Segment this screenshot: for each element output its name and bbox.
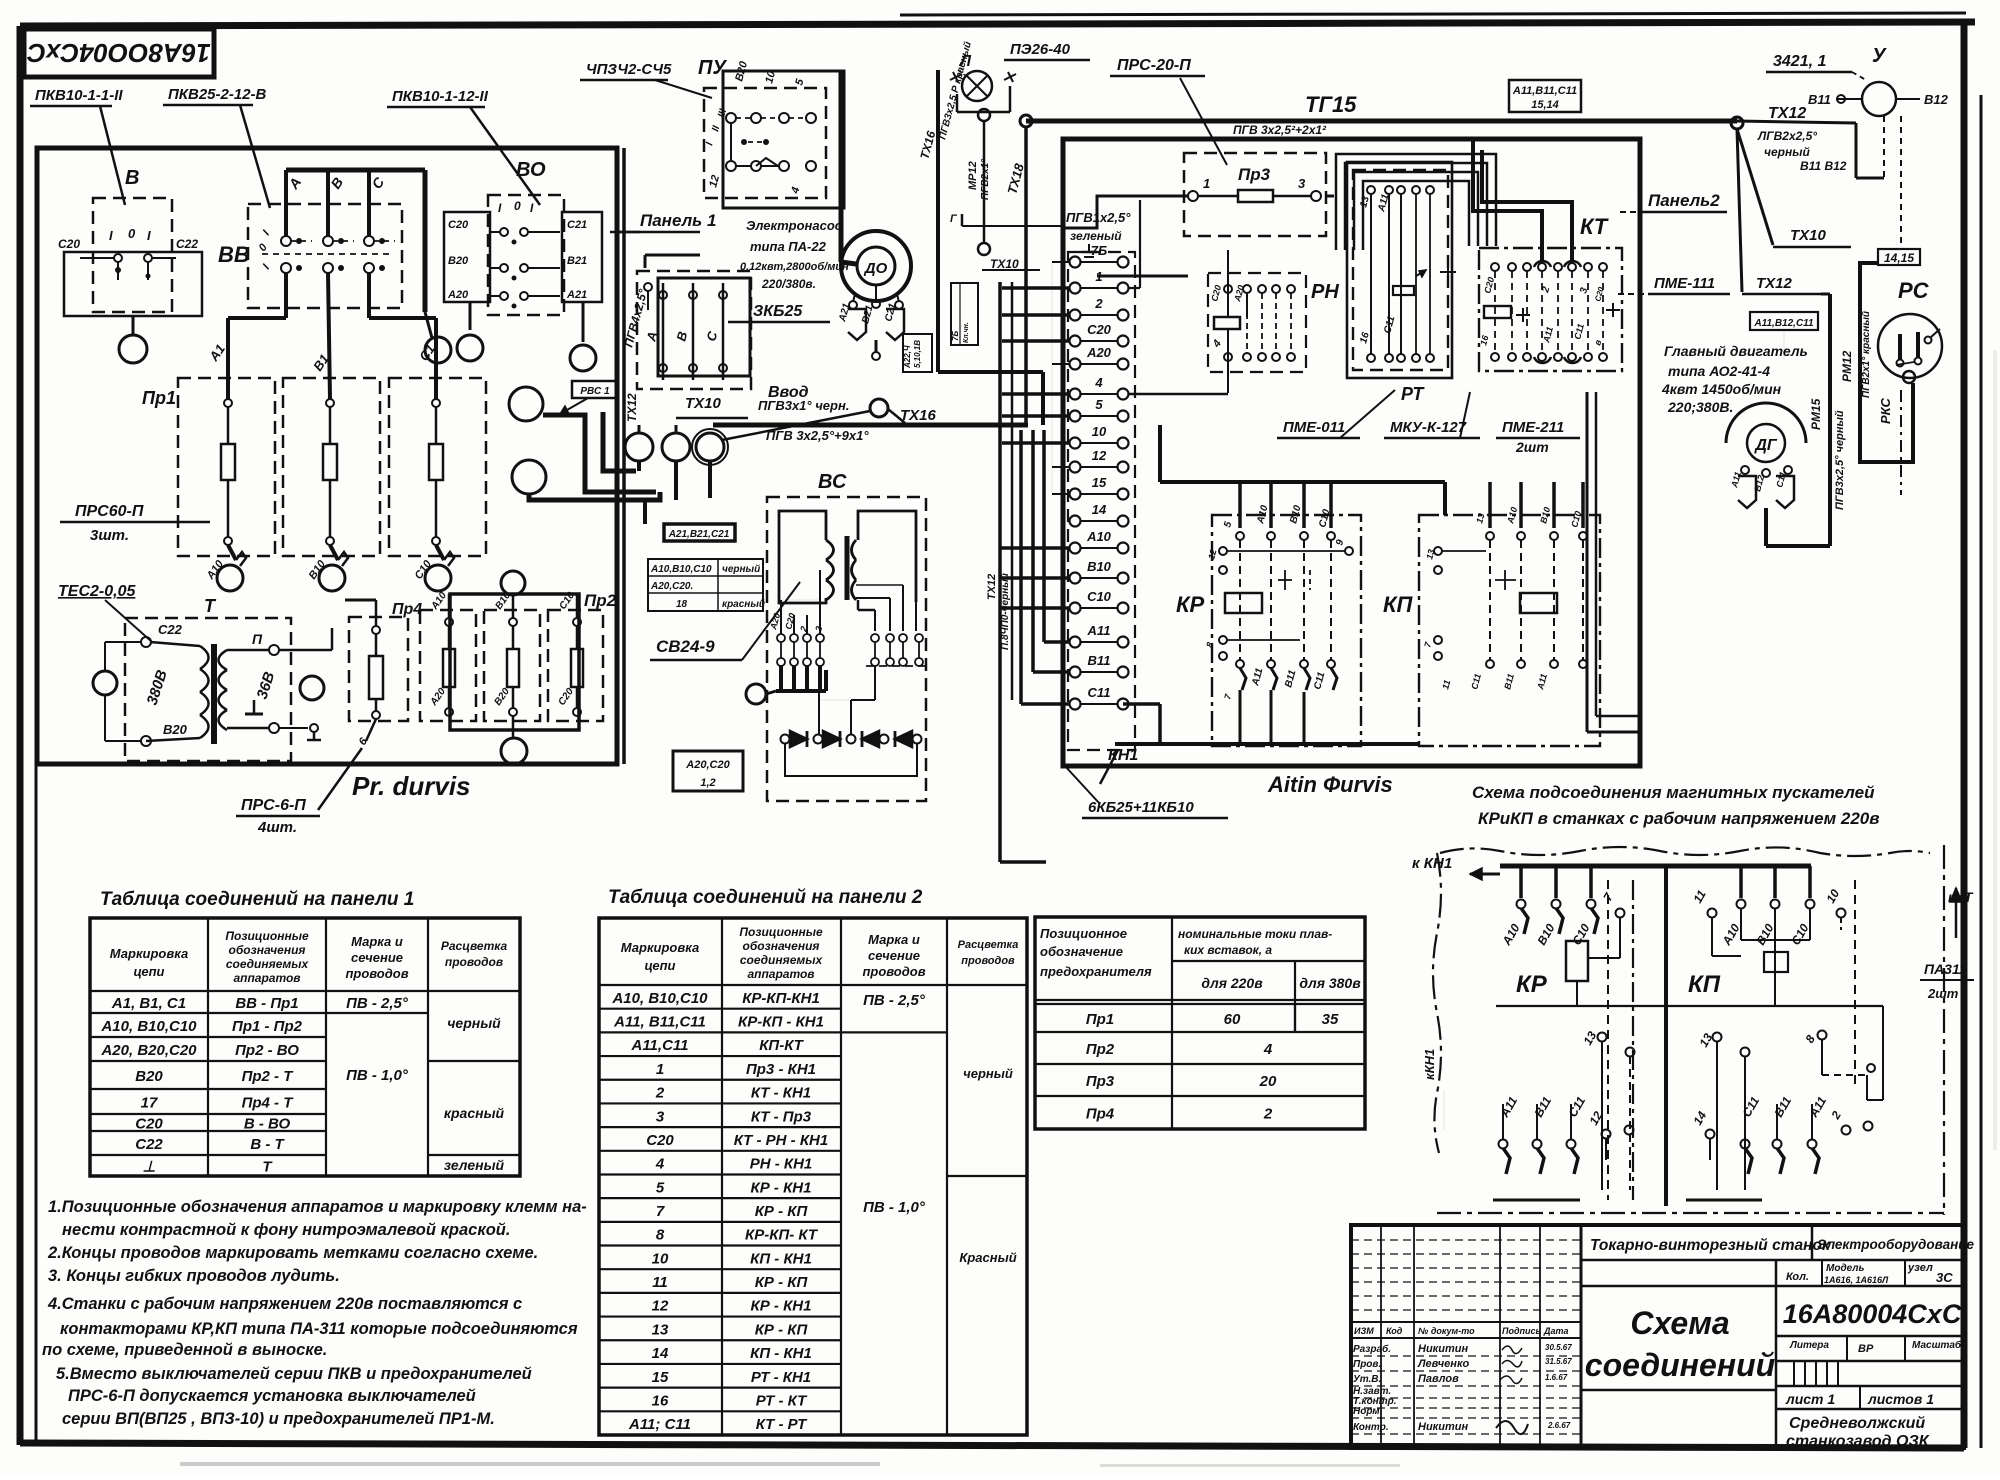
svg-text:16: 16	[652, 1392, 669, 1409]
svg-text:А21: А21	[566, 289, 587, 301]
svg-text:А11,С11: А11,С11	[631, 1037, 689, 1054]
svg-text:15: 15	[1092, 475, 1107, 490]
svg-text:Пр4 - Т: Пр4 - Т	[242, 1095, 295, 1112]
svg-text:РМ15: РМ15	[1809, 398, 1823, 430]
svg-text:ПГВ2х1°: ПГВ2х1°	[980, 158, 991, 200]
svg-text:Расцветка: Расцветка	[958, 939, 1019, 951]
svg-text:ПВ - 1,0°: ПВ - 1,0°	[863, 1199, 926, 1216]
svg-text:Ут.В.: Ут.В.	[1353, 1374, 1381, 1385]
svg-text:цепи: цепи	[644, 958, 675, 973]
svg-text:Пр3 - КН1: Пр3 - КН1	[746, 1061, 816, 1078]
svg-text:Пр4: Пр4	[1086, 1106, 1115, 1123]
svg-text:Электрооборудование: Электрооборудование	[1817, 1237, 1975, 1252]
svg-text:КР: КР	[1516, 971, 1548, 998]
svg-text:ТХ10: ТХ10	[1790, 227, 1827, 244]
svg-text:6КБ25+11КБ10: 6КБ25+11КБ10	[1088, 799, 1194, 816]
svg-text:РТ: РТ	[1401, 384, 1425, 404]
svg-text:ПКВ25-2-12-В: ПКВ25-2-12-В	[168, 86, 267, 103]
svg-text:В11: В11	[1808, 92, 1831, 107]
svg-text:соединяемых: соединяемых	[740, 953, 824, 967]
svg-text:Схема подсоединения магнитных: Схема подсоединения магнитных пускателей	[1472, 783, 1875, 802]
svg-text:РН - КН1: РН - КН1	[750, 1156, 813, 1173]
svg-text:220;380В.: 220;380В.	[1667, 399, 1733, 415]
svg-text:4шт.: 4шт.	[257, 819, 297, 836]
svg-text:обозначения: обозначения	[229, 943, 306, 957]
svg-text:60: 60	[1224, 1011, 1241, 1028]
svg-text:А20, В20,С20: А20, В20,С20	[100, 1042, 197, 1059]
svg-text:17: 17	[141, 1095, 158, 1112]
svg-text:ПГВ2х1° красный: ПГВ2х1° красный	[1861, 311, 1872, 398]
svg-text:для 220в: для 220в	[1201, 975, 1263, 991]
svg-text:ЛГВ2х2,5°: ЛГВ2х2,5°	[1757, 129, 1817, 143]
svg-text:С11: С11	[1088, 685, 1111, 700]
svg-text:по схеме, приведенной в вын: по схеме, приведенной в выноске.	[42, 1341, 327, 1359]
svg-text:А11; С11: А11; С11	[628, 1416, 691, 1433]
svg-text:черный: черный	[722, 564, 760, 575]
svg-text:В - Т: В - Т	[250, 1136, 285, 1153]
svg-text:ПВ - 2,5°: ПВ - 2,5°	[346, 995, 409, 1012]
svg-text:Марка и: Марка и	[351, 934, 403, 949]
svg-text:типа АО2-41-4: типа АО2-41-4	[1668, 363, 1770, 379]
svg-text:А22,Ч: А22,Ч	[903, 345, 912, 369]
svg-text:Пр1: Пр1	[1086, 1011, 1114, 1028]
svg-text:1: 1	[656, 1061, 664, 1078]
svg-text:А20,С20: А20,С20	[685, 759, 730, 771]
svg-text:зеленый: зеленый	[1070, 229, 1122, 243]
svg-text:зеленый: зеленый	[444, 1157, 505, 1173]
svg-text:2: 2	[1094, 296, 1103, 311]
svg-text:0: 0	[128, 226, 136, 241]
svg-text:ких вставок, а: ких вставок, а	[1184, 943, 1272, 957]
svg-text:проводов: проводов	[445, 955, 503, 969]
svg-text:20: 20	[1259, 1073, 1277, 1090]
svg-text:ПРС-20-П: ПРС-20-П	[1117, 57, 1191, 74]
svg-text:2шт: 2шт	[1927, 986, 1959, 1001]
svg-text:С21: С21	[567, 219, 587, 231]
svg-text:5.Вместо выключателей серии П: 5.Вместо выключателей серии ПКВ и предох…	[56, 1365, 532, 1383]
svg-text:номинальные токи плав-: номинальные токи плав-	[1178, 927, 1332, 941]
svg-text:серии ВП(ВП25 , ВПЗ-10) и: серии ВП(ВП25 , ВПЗ-10) и предохранителе…	[62, 1410, 495, 1428]
svg-text:ТХ12: ТХ12	[1756, 275, 1793, 292]
svg-text:4: 4	[655, 1156, 665, 1173]
svg-text:КП - КН1: КП - КН1	[750, 1345, 812, 1362]
svg-text:14: 14	[1092, 502, 1107, 517]
svg-text:1.6.67: 1.6.67	[1545, 1373, 1568, 1382]
svg-text:ИЗМ: ИЗМ	[1354, 1326, 1374, 1336]
svg-text:КР - КП: КР - КП	[755, 1203, 809, 1220]
svg-text:В20: В20	[135, 1068, 163, 1085]
svg-text:КР - КП: КР - КП	[755, 1274, 809, 1291]
svg-text:КТ - Пр3: КТ - Пр3	[751, 1108, 812, 1125]
svg-text:І: І	[147, 228, 151, 243]
svg-text:В11: В11	[1088, 653, 1111, 668]
svg-text:30.5.67: 30.5.67	[1545, 1343, 1572, 1352]
svg-text:ЧПЗЧ2-СЧ5: ЧПЗЧ2-СЧ5	[586, 61, 672, 78]
svg-text:А11,В11,С11: А11,В11,С11	[1512, 85, 1577, 97]
svg-text:РС: РС	[1898, 278, 1930, 303]
svg-text:КР-КП-КН1: КР-КП-КН1	[742, 990, 820, 1007]
svg-text:ПРС60-П: ПРС60-П	[75, 503, 144, 520]
svg-text:1,2: 1,2	[700, 777, 715, 789]
svg-text:10: 10	[652, 1250, 669, 1267]
svg-text:Маркировка: Маркировка	[110, 946, 188, 961]
svg-text:сечение: сечение	[351, 950, 403, 965]
svg-text:Схема: Схема	[1630, 1305, 1729, 1341]
svg-text:С22: С22	[176, 237, 198, 251]
svg-text:ПРС-6-П: ПРС-6-П	[241, 797, 306, 814]
svg-text:35: 35	[1322, 1011, 1339, 1028]
svg-text:Левченко: Левченко	[1417, 1358, 1470, 1370]
svg-text:ПГВ 3х2,5°+9х1°: ПГВ 3х2,5°+9х1°	[766, 428, 869, 443]
svg-text:соединяемых: соединяемых	[226, 957, 310, 971]
svg-text:СВ24-9: СВ24-9	[656, 637, 715, 656]
svg-text:3421, 1: 3421, 1	[1773, 53, 1826, 70]
svg-text:ТХ10: ТХ10	[990, 257, 1019, 271]
svg-text:31.5.67: 31.5.67	[1545, 1357, 1572, 1366]
svg-text:Разраб.: Разраб.	[1353, 1343, 1391, 1355]
svg-text:ВС: ВС	[818, 471, 847, 493]
svg-text:ВР: ВР	[1858, 1343, 1874, 1355]
svg-text:3: 3	[656, 1108, 665, 1125]
svg-text:А10, В10,С10: А10, В10,С10	[100, 1018, 197, 1035]
svg-text:5: 5	[1095, 397, 1103, 412]
svg-text:черный: черный	[1764, 145, 1810, 159]
svg-text:к КН1: к КН1	[1412, 855, 1452, 872]
svg-text:2шт: 2шт	[1515, 439, 1549, 455]
svg-text:ПРС-6-П допускается установ: ПРС-6-П допускается установка выключател…	[68, 1387, 476, 1405]
svg-text:В11 В12: В11 В12	[1800, 159, 1847, 173]
svg-text:сечение: сечение	[868, 948, 920, 963]
svg-text:ПКВ10-1-1-II: ПКВ10-1-1-II	[35, 87, 123, 104]
svg-text:16А8ОО04СхС: 16А8ОО04СхС	[26, 38, 211, 68]
svg-text:предохранителя: предохранителя	[1040, 964, 1152, 979]
svg-text:Панель2: Панель2	[1648, 191, 1720, 210]
svg-text:10: 10	[1092, 424, 1107, 439]
svg-text:ТХ16: ТХ16	[900, 407, 937, 424]
svg-text:18: 18	[676, 599, 688, 610]
svg-text:КП: КП	[1383, 592, 1414, 617]
svg-text:В21: В21	[567, 255, 587, 267]
svg-text:проводов: проводов	[862, 964, 925, 979]
svg-text:ПГВ 3х2,5²+2х1²: ПГВ 3х2,5²+2х1²	[1233, 123, 1327, 137]
svg-text:В20: В20	[448, 255, 469, 267]
svg-text:3С: 3С	[1936, 1270, 1953, 1285]
svg-text:ВВ: ВВ	[218, 242, 250, 267]
svg-text:РКС: РКС	[1878, 398, 1893, 424]
svg-text:С20: С20	[646, 1132, 674, 1149]
svg-text:1: 1	[1203, 176, 1210, 191]
svg-text:узел: узел	[1907, 1262, 1933, 1274]
svg-text:проводов: проводов	[345, 966, 408, 981]
svg-text:лист 1: лист 1	[1785, 1391, 1835, 1407]
svg-text:контакторами КР,КП типа ПА-3: контакторами КР,КП типа ПА-311 которые п…	[60, 1320, 578, 1338]
svg-text:№ докум-то: № докум-то	[1418, 1326, 1475, 1336]
svg-text:Aitin Фurvis: Aitin Фurvis	[1267, 772, 1393, 797]
svg-text:КП - КН1: КП - КН1	[750, 1250, 812, 1267]
svg-text:С10: С10	[1087, 589, 1112, 604]
svg-text:ПА311: ПА311	[1924, 961, 1967, 977]
svg-text:МКУ-К-127: МКУ-К-127	[1390, 419, 1467, 436]
svg-text:цепи: цепи	[133, 964, 164, 979]
svg-text:Главный двигатель: Главный двигатель	[1664, 343, 1808, 359]
svg-text:С20: С20	[58, 237, 80, 251]
svg-text:МР12: МР12	[967, 161, 979, 190]
svg-text:7: 7	[656, 1203, 665, 1220]
svg-text:РТ - КТ: РТ - КТ	[756, 1392, 808, 1409]
svg-text:КТ - РТ: КТ - РТ	[756, 1416, 808, 1433]
svg-text:нести контрастной к фону ни: нести контрастной к фону нитроэмалевой к…	[62, 1221, 510, 1239]
svg-text:С22: С22	[135, 1136, 163, 1153]
svg-text:РТ - КН1: РТ - КН1	[751, 1369, 811, 1386]
svg-text:ПЭ26-40: ПЭ26-40	[1010, 41, 1071, 58]
svg-text:А11,В12,С11: А11,В12,С11	[1753, 318, 1814, 329]
svg-text:КР-КП - КН1: КР-КП - КН1	[738, 1014, 824, 1031]
svg-text:КР: КР	[1176, 592, 1205, 617]
svg-text:11: 11	[652, 1274, 668, 1291]
svg-text:ПВ - 1,0°: ПВ - 1,0°	[346, 1067, 409, 1084]
svg-text:14: 14	[652, 1345, 669, 1362]
svg-text:ДО: ДО	[863, 260, 888, 277]
svg-text:4: 4	[1263, 1041, 1273, 1058]
svg-text:Кол.: Кол.	[1786, 1271, 1809, 1283]
svg-text:черный: черный	[447, 1015, 501, 1031]
svg-text:ПМЕ-111: ПМЕ-111	[1654, 275, 1715, 292]
svg-text:ЗКБ25: ЗКБ25	[753, 303, 803, 320]
svg-text:В10: В10	[1087, 559, 1112, 574]
svg-text:Пр2: Пр2	[584, 591, 617, 610]
svg-text:Пров.: Пров.	[1353, 1359, 1381, 1370]
svg-text:РМ12: РМ12	[1840, 350, 1854, 382]
svg-text:Маркировка: Маркировка	[621, 940, 699, 955]
svg-text:Пр3: Пр3	[1086, 1073, 1115, 1090]
svg-text:КТ - КН1: КТ - КН1	[751, 1085, 811, 1102]
svg-text:Панель 1: Панель 1	[640, 211, 716, 230]
svg-text:КП: КП	[1688, 971, 1721, 998]
svg-text:І: І	[109, 228, 113, 243]
svg-text:2: 2	[1263, 1106, 1273, 1123]
svg-text:А10,В10,С10: А10,В10,С10	[650, 564, 712, 575]
svg-text:Павлов: Павлов	[1418, 1373, 1459, 1385]
svg-text:С20: С20	[1087, 322, 1112, 337]
svg-text:Таблица соединений на панел: Таблица соединений на панели 1	[100, 889, 414, 910]
svg-text:13: 13	[652, 1321, 669, 1338]
svg-text:красный: красный	[444, 1105, 505, 1121]
svg-text:2: 2	[655, 1085, 665, 1102]
svg-text:3: 3	[1298, 176, 1306, 191]
svg-text:А1, В1, С1: А1, В1, С1	[111, 995, 186, 1012]
svg-text:4: 4	[1094, 375, 1103, 390]
svg-text:В12: В12	[1924, 92, 1949, 107]
svg-text:⊥: ⊥	[142, 1159, 155, 1176]
svg-text:соединений: соединений	[1585, 1347, 1775, 1383]
svg-text:Пр3: Пр3	[1238, 165, 1271, 184]
svg-text:аппаратов: аппаратов	[747, 967, 814, 981]
svg-text:Токарно-винторезный станок: Токарно-винторезный станок	[1590, 1237, 1831, 1254]
svg-text:ТХ12: ТХ12	[986, 574, 998, 600]
svg-text:8: 8	[656, 1227, 665, 1244]
svg-text:ПГВ3х1° черн.: ПГВ3х1° черн.	[758, 398, 849, 413]
svg-text:Пр2 - ВО: Пр2 - ВО	[235, 1042, 299, 1059]
svg-text:3шт.: 3шт.	[90, 527, 129, 544]
svg-text:КР - КН1: КР - КН1	[751, 1298, 812, 1315]
svg-text:4.Станки с рабочим напряжени: 4.Станки с рабочим напряжением 220в пост…	[47, 1295, 522, 1313]
svg-text:15,14: 15,14	[1531, 99, 1559, 111]
svg-text:1: 1	[1095, 269, 1102, 284]
svg-text:листов 1: листов 1	[1867, 1391, 1934, 1407]
svg-text:Никитин: Никитин	[1418, 1421, 1468, 1433]
svg-text:РВС 1: РВС 1	[580, 386, 610, 397]
svg-text:16А80004СхС: 16А80004СхС	[1783, 1299, 1962, 1329]
svg-text:5,10,1В: 5,10,1В	[913, 340, 922, 368]
svg-text:3. Концы гибких проводов: 3. Концы гибких проводов лудить.	[48, 1267, 340, 1285]
svg-text:7Б: 7Б	[951, 331, 960, 341]
svg-text:красный: красный	[722, 599, 765, 610]
svg-text:Код: Код	[1386, 1326, 1403, 1336]
svg-text:типа ПА-22: типа ПА-22	[750, 239, 827, 254]
svg-text:Таблица соединений на пане: Таблица соединений на панели 2	[608, 887, 923, 908]
svg-text:ТХ12: ТХ12	[1768, 105, 1806, 122]
svg-text:ДГ: ДГ	[1753, 437, 1778, 454]
svg-text:КТ - РН - КН1: КТ - РН - КН1	[734, 1132, 828, 1149]
svg-text:Электронасос: Электронасос	[746, 218, 843, 233]
svg-text:12: 12	[652, 1298, 669, 1315]
svg-text:В: В	[125, 167, 139, 189]
svg-text:КР - КП: КР - КП	[755, 1321, 809, 1338]
svg-text:КР-КП- КТ: КР-КП- КТ	[745, 1227, 819, 1244]
svg-text:Контр.: Контр.	[1353, 1422, 1389, 1433]
svg-text:П: П	[252, 631, 263, 647]
svg-text:Подпись: Подпись	[1502, 1326, 1541, 1336]
svg-text:У: У	[1872, 45, 1887, 67]
svg-text:ТГ15: ТГ15	[1305, 92, 1357, 117]
svg-text:А10: А10	[1086, 529, 1112, 544]
svg-text:0: 0	[514, 199, 521, 213]
svg-text:Дата: Дата	[1543, 1326, 1569, 1336]
svg-text:КТ: КТ	[1580, 214, 1609, 239]
svg-text:КП-КТ: КП-КТ	[759, 1037, 804, 1054]
svg-text:Расцветка: Расцветка	[441, 939, 508, 953]
svg-text:станкозавод ОЗК: станкозавод ОЗК	[1786, 1433, 1930, 1450]
svg-text:П.8ЧП0-черный: П.8ЧП0-черный	[1000, 573, 1011, 650]
svg-text:А11: А11	[1087, 623, 1111, 638]
svg-text:С20: С20	[448, 219, 469, 231]
svg-text:А11, В11,С11: А11, В11,С11	[613, 1014, 706, 1031]
svg-text:для 380в: для 380в	[1299, 975, 1361, 991]
svg-text:Пр1 - Пр2: Пр1 - Пр2	[232, 1018, 303, 1035]
svg-text:1А616, 1А616Л: 1А616, 1А616Л	[1824, 1275, 1889, 1285]
svg-text:1.Позиционные обозначения аппа: 1.Позиционные обозначения аппаратов и ма…	[48, 1198, 587, 1216]
svg-text:Модель: Модель	[1826, 1263, 1865, 1274]
svg-text:А20,С20.: А20,С20.	[650, 581, 693, 592]
svg-text:220/380в.: 220/380в.	[761, 277, 816, 291]
svg-text:14,15: 14,15	[1884, 251, 1914, 265]
svg-text:7Б: 7Б	[1091, 243, 1107, 258]
svg-text:Марка и: Марка и	[868, 932, 920, 947]
svg-text:Литера: Литера	[1789, 1340, 1829, 1351]
svg-text:А20: А20	[1086, 345, 1112, 360]
svg-text:Красный: Красный	[959, 1250, 1016, 1265]
svg-text:Позиционные: Позиционные	[739, 925, 823, 939]
svg-text:Позиционные: Позиционные	[225, 929, 309, 943]
svg-text:ПГВ3х2,5° черный: ПГВ3х2,5° черный	[1834, 410, 1846, 510]
svg-text:КРиКП в станках с рабочим напр: КРиКП в станках с рабочим напряжением 22…	[1478, 809, 1880, 828]
svg-text:Pr. durvis: Pr. durvis	[352, 771, 471, 801]
svg-text:ВВ - Пр1: ВВ - Пр1	[235, 995, 298, 1012]
svg-text:Пр2: Пр2	[1086, 1041, 1115, 1058]
svg-text:ПМЕ-211: ПМЕ-211	[1502, 419, 1564, 436]
svg-text:ТХ10: ТХ10	[685, 395, 722, 412]
svg-text:Позиционное: Позиционное	[1040, 926, 1127, 941]
svg-text:ТХ12: ТХ12	[625, 393, 639, 422]
svg-text:4квт 1450об/мин: 4квт 1450об/мин	[1661, 381, 1782, 397]
svg-text:ВО: ВО	[516, 159, 546, 181]
svg-text:Норм.: Норм.	[1353, 1406, 1382, 1417]
svg-text:2.Концы проводов маркировать: 2.Концы проводов маркировать метками сог…	[47, 1244, 538, 1262]
svg-text:5: 5	[656, 1179, 665, 1196]
svg-text:Кл.чн.: Кл.чн.	[963, 322, 970, 343]
svg-text:2.6.67: 2.6.67	[1547, 1421, 1571, 1430]
svg-text:12: 12	[1092, 448, 1107, 463]
svg-text:ПВ - 2,5°: ПВ - 2,5°	[863, 992, 926, 1009]
svg-text:РН: РН	[1311, 281, 1339, 303]
svg-text:ПГВ1х2,5°: ПГВ1х2,5°	[1066, 210, 1131, 225]
svg-text:обозначения: обозначения	[743, 939, 820, 953]
svg-text:Масштаб: Масштаб	[1912, 1339, 1962, 1351]
svg-text:кКН1: кКН1	[1422, 1049, 1437, 1080]
svg-text:С22: С22	[158, 622, 183, 637]
svg-text:проводов: проводов	[961, 955, 1015, 967]
svg-text:Пр1: Пр1	[142, 388, 176, 408]
svg-text:ТЕС2-0,05: ТЕС2-0,05	[58, 583, 136, 600]
svg-text:КР - КН1: КР - КН1	[751, 1179, 812, 1196]
svg-text:ПМЕ-011: ПМЕ-011	[1283, 419, 1345, 436]
svg-text:15: 15	[652, 1369, 669, 1386]
svg-text:обозначение: обозначение	[1040, 944, 1123, 959]
svg-text:В20: В20	[163, 722, 188, 737]
svg-text:аппаратов: аппаратов	[233, 971, 300, 985]
svg-text:А21,В21,С21: А21,В21,С21	[668, 529, 730, 540]
svg-text:Пр4: Пр4	[392, 601, 422, 618]
svg-text:Пр2 - Т: Пр2 - Т	[242, 1068, 295, 1085]
svg-text:Средневолжский: Средневолжский	[1789, 1415, 1925, 1432]
svg-text:0,12квт,2800об/мин: 0,12квт,2800об/мин	[740, 261, 849, 273]
svg-text:А20: А20	[447, 289, 469, 301]
svg-text:Никитин: Никитин	[1418, 1343, 1468, 1355]
svg-text:ПКВ10-1-12-II: ПКВ10-1-12-II	[392, 88, 489, 105]
svg-text:черный: черный	[963, 1066, 1013, 1081]
svg-text:А10, В10,С10: А10, В10,С10	[611, 990, 708, 1007]
